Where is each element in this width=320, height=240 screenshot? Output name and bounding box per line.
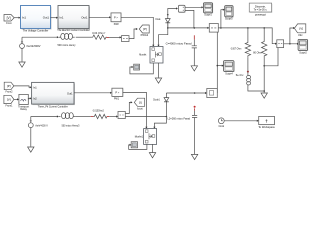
block C xyxy=(209,24,218,33)
svg-text:[V]: [V] xyxy=(299,27,303,31)
wire tag to In1 big block xyxy=(14,86,31,87)
inductor L1 xyxy=(59,33,75,39)
ground G3 under capacitor xyxy=(191,66,197,71)
transport delay block xyxy=(18,94,29,111)
svg-text:[P]: [P] xyxy=(7,84,11,88)
wire sensor out bottom rail right xyxy=(125,116,166,118)
display block xyxy=(224,61,235,76)
svg-text:P >: P > xyxy=(114,15,118,19)
svg-text:PW1: PW1 xyxy=(114,96,119,100)
wire L2 to R4 xyxy=(76,116,91,118)
inductor L3 vertical xyxy=(247,75,264,91)
svg-text:The Electric Current Controlle: The Electric Current Controller xyxy=(57,28,90,32)
subsystem U3 Three Ph Current Controller xyxy=(32,82,75,108)
svg-text:Scope1: Scope1 xyxy=(204,13,212,17)
svg-text:Clock: Clock xyxy=(219,124,225,128)
diode D2 xyxy=(164,98,169,102)
svg-text:theVdc500V: theVdc500V xyxy=(27,44,41,48)
diode top line from node to block A input xyxy=(168,9,177,28)
svg-text:Scope2: Scope2 xyxy=(299,51,307,55)
svg-text:Out1: Out1 xyxy=(43,16,50,20)
svg-text:P >: P > xyxy=(115,91,119,95)
svg-text:From: From xyxy=(6,21,12,25)
svg-text:theV=500 V: theV=500 V xyxy=(36,123,48,127)
voltage sensor VM1 xyxy=(277,40,284,48)
resistor R1 xyxy=(92,35,107,39)
svg-text:[P]: [P] xyxy=(143,27,147,31)
mosfet2 m out to terminator T2 xyxy=(129,144,147,149)
wire clock to workspace xyxy=(224,120,257,122)
svg-text:Out1: Out1 xyxy=(81,16,88,20)
from tag PW bottom 2 xyxy=(4,95,14,107)
svg-text:0.007 Ohm: 0.007 Ohm xyxy=(231,47,242,51)
svg-text:Vdc: Vdc xyxy=(298,33,303,37)
clock block xyxy=(218,118,224,128)
capacitor C1 xyxy=(192,40,197,66)
inductor L2 xyxy=(59,113,76,119)
wire top dc rail xyxy=(22,36,58,38)
red stub capacitor top xyxy=(193,35,195,39)
svg-text:[V]: [V] xyxy=(7,98,11,102)
wire PW1 to mosfet2 gate xyxy=(123,92,147,127)
wire diode line down and left to mosfet2 drain xyxy=(154,117,166,128)
svg-text:To Workspace: To Workspace xyxy=(258,125,275,129)
vertical from block C down to lower sensor xyxy=(216,32,218,93)
resistor R2 vertical branch1 xyxy=(245,28,250,58)
red node dot xyxy=(247,71,249,73)
powergui block xyxy=(249,3,272,16)
from tag V xyxy=(4,15,21,26)
wire tag2 to transport delay xyxy=(14,98,18,100)
svg-text:From1: From1 xyxy=(6,103,13,107)
from tag PW bottom 1 xyxy=(4,82,14,93)
wire tap branch2 to vsensor bottom xyxy=(264,48,278,66)
bottom rail wire xyxy=(31,116,58,118)
ground G1 xyxy=(19,62,25,67)
wire U1 to U2 xyxy=(51,17,58,19)
wire TD to In2 xyxy=(28,98,30,99)
svg-text:Three_Ph Current Controller: Three_Ph Current Controller xyxy=(38,104,68,108)
mosfet2 s to ground G7 xyxy=(152,144,154,152)
svg-text:Scope4: Scope4 xyxy=(225,72,233,76)
sensor block I2 bottom xyxy=(118,112,125,119)
svg-text:Iout: Iout xyxy=(137,106,143,110)
subsystem U1 The Voltage Controller xyxy=(21,6,52,33)
terminator T2 xyxy=(131,142,137,148)
wire vsensor out to scope2 and tag xyxy=(284,28,298,44)
wire red unconnected stub xyxy=(106,36,109,38)
terminator T1 xyxy=(134,64,140,70)
svg-text:C=4000 micro Farad: C=4000 micro Farad xyxy=(166,41,192,45)
wire block C out rail right xyxy=(218,28,272,43)
wire sensor to goto PWG2 xyxy=(129,29,136,39)
riser block C to block B xyxy=(221,10,224,28)
block PW2 pwm generator xyxy=(111,13,122,26)
mosfet m out to terminator T1 xyxy=(130,63,153,74)
svg-text:Ts = 5e-05 s.: Ts = 5e-05 s. xyxy=(254,8,268,12)
svg-text:80 Ohm: 80 Ohm xyxy=(253,51,262,55)
sensor block I1 current measure top xyxy=(122,36,130,42)
goto tag Iout xyxy=(134,98,144,110)
block A measurement xyxy=(178,5,185,12)
svg-text:In1: In1 xyxy=(33,85,37,89)
to workspace block xyxy=(258,116,275,129)
wire sensor riser to goto tag xyxy=(125,102,131,113)
ground G4 branch xyxy=(261,93,267,98)
svg-text:powergui: powergui xyxy=(255,12,266,16)
mosfet s to ground G2 xyxy=(158,63,160,78)
resistor R3 vertical branch2 80 Ohm xyxy=(262,28,267,93)
horizontal wire mid bottom y93 xyxy=(166,92,206,94)
svg-text:500 micro Henry3: 500 micro Henry3 xyxy=(62,124,80,128)
red dot unconnected cap2 xyxy=(194,106,196,108)
svg-text:Diode: Diode xyxy=(156,17,161,21)
scope Scope1 xyxy=(204,3,214,17)
svg-text:PW2: PW2 xyxy=(114,22,119,26)
mosfet M2 block xyxy=(144,129,157,145)
svg-text:500 micro Henry: 500 micro Henry xyxy=(58,43,77,47)
wire block A to Scope1 xyxy=(185,6,202,8)
tap to display block xyxy=(217,65,222,67)
dc source V1 xyxy=(20,37,25,62)
ground G6 xyxy=(191,154,197,159)
svg-text:In2: In2 xyxy=(33,96,37,100)
scope block B xyxy=(225,6,234,21)
capacitor C2 xyxy=(192,111,197,154)
subsystem U2 The Electric Current Controller xyxy=(57,6,90,33)
ground G5 xyxy=(28,147,34,152)
wire L1 to R1 xyxy=(76,36,92,38)
sensor block I3 mid xyxy=(207,89,218,98)
diode D1 xyxy=(165,14,170,23)
goto tag Vdc xyxy=(294,24,305,37)
dc source V2 bottom xyxy=(28,117,33,147)
wire From tag to Voltage Controller xyxy=(14,17,19,19)
svg-text:[I]: [I] xyxy=(139,101,142,105)
svg-text:0.015Ohm2: 0.015Ohm2 xyxy=(93,109,104,113)
wire rail into vsensor xyxy=(272,43,276,44)
svg-text:[V]: [V] xyxy=(7,16,11,20)
svg-text:In1: In1 xyxy=(60,16,64,20)
svg-text:0.04 Ohm f: 0.04 Ohm f xyxy=(92,31,105,35)
svg-text:Out1: Out1 xyxy=(67,92,73,96)
mosfet M1 block xyxy=(150,47,163,64)
svg-text:Mosfet1: Mosfet1 xyxy=(135,135,144,139)
goto tag PWG2 xyxy=(139,25,149,37)
svg-text:From2: From2 xyxy=(6,90,13,94)
diode D2 line xyxy=(165,93,167,117)
svg-text:Mosfet: Mosfet xyxy=(139,53,146,57)
svg-text:Scope3: Scope3 xyxy=(225,16,233,20)
svg-text:5e-3 H: 5e-3 H xyxy=(236,73,244,77)
svg-text:PWG2: PWG2 xyxy=(141,33,149,37)
block PW1 xyxy=(112,88,123,100)
resistor R4 xyxy=(93,114,107,118)
wire U2 to PW2 xyxy=(89,16,110,18)
svg-text:Delay: Delay xyxy=(20,107,27,111)
svg-text:The Voltage Controller: The Voltage Controller xyxy=(23,28,49,32)
scope Scope2 xyxy=(298,39,308,54)
svg-text:L2=260 micro Farad: L2=260 micro Farad xyxy=(168,116,191,120)
svg-text:Diode1: Diode1 xyxy=(153,98,160,102)
node J1 diode to mosfet drain xyxy=(159,23,168,46)
wire PW2 to mosfet gate xyxy=(121,17,153,45)
wire U3 out to PW1 xyxy=(74,92,111,94)
svg-text:In1: In1 xyxy=(22,16,26,20)
wire block A second out down to mid rail xyxy=(185,10,194,28)
mid rail wire y28 xyxy=(168,27,209,29)
